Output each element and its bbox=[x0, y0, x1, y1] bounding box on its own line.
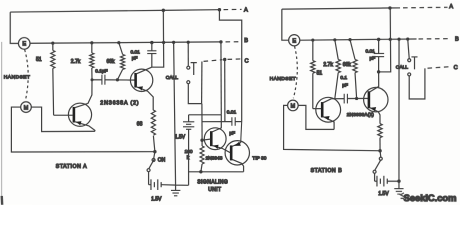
wire A-line rail (station B) bbox=[282, 8, 390, 9]
wire C riser to 0.01uF cap (signaling) bbox=[224, 59, 226, 121]
capacitor C5 0.01uF (station B) bbox=[378, 39, 380, 71]
handset dashed arc (station A) bbox=[25, 49, 29, 99]
wire signaling battery plus to collector riser bbox=[189, 114, 222, 116]
wire M1 right lead to Q1 emitter loop bbox=[31, 107, 95, 131]
resistor R1 51 (station A) bbox=[51, 50, 55, 68]
node 68k / base wire (station B) bbox=[355, 97, 358, 100]
wire M2 right lead to Q3 emitter loop bbox=[298, 105, 334, 129]
svg-text:68k: 68k bbox=[343, 62, 352, 68]
node B rail / CALL feed (B) bbox=[406, 37, 409, 40]
svg-text:E: E bbox=[22, 42, 26, 48]
svg-text:B: B bbox=[244, 38, 248, 44]
svg-text:µF: µF bbox=[132, 56, 138, 62]
resistor R9 68 (station B) bbox=[378, 124, 382, 138]
transistor Q2 2N3638A (station A upper) bbox=[105, 67, 153, 110]
svg-text:0.01: 0.01 bbox=[131, 49, 141, 55]
svg-text:0.01: 0.01 bbox=[366, 49, 376, 55]
svg-text:M: M bbox=[24, 105, 29, 111]
node battery / ground junction (station B) bbox=[397, 179, 400, 182]
wire Q2 collector to A rail riser bbox=[152, 10, 164, 67]
node 2.7k / Q1 collector junction bbox=[91, 78, 94, 81]
transistor Q6 TIP30 (signaling) bbox=[225, 122, 249, 172]
svg-text:A: A bbox=[449, 4, 453, 10]
microphone M1 (station A) bbox=[21, 102, 32, 113]
svg-text:A: A bbox=[244, 8, 248, 14]
battery B2 1.5V signaling (vertical) bbox=[183, 115, 194, 186]
wire B rail to battery riser (station B) bbox=[398, 39, 400, 181]
node B rail / 0.01uF bbox=[150, 41, 153, 44]
wire A-line rail (station A) bbox=[10, 10, 219, 13]
node B rail / 68k (B) bbox=[348, 38, 351, 41]
node B rail / 0.01uF (B) bbox=[377, 38, 380, 41]
node B rail / CALL feed bbox=[187, 41, 190, 44]
wire CALL return to C line (station A) bbox=[188, 84, 201, 104]
resistor R3 68k (station A) bbox=[121, 54, 125, 69]
svg-text:1.5V: 1.5V bbox=[175, 135, 186, 141]
terminal B dashed lead bbox=[226, 41, 241, 43]
wire B-line rail (station A) bbox=[30, 42, 221, 44]
terminal A dashed lead bbox=[224, 8, 242, 10]
wire M2 left lead to bottom rail (station B) bbox=[284, 105, 381, 150]
resistor R2 2.7k (station A) bbox=[90, 53, 94, 68]
node on A rail at collector riser bbox=[162, 9, 165, 12]
node B rail / battery riser bbox=[172, 41, 175, 44]
wire CALL return to C line (station B) bbox=[409, 68, 425, 99]
svg-text:68k: 68k bbox=[107, 59, 116, 65]
svg-text:µF: µF bbox=[370, 55, 376, 61]
capacitor C4 0.1uF (station B) bbox=[331, 97, 368, 99]
node bottom rail / 68 / ON (station B) bbox=[378, 149, 381, 152]
node B rail / 2.7k (B) bbox=[333, 38, 336, 41]
svg-text:0.1µF: 0.1µF bbox=[95, 68, 107, 74]
svg-text:2N3643: 2N3643 bbox=[206, 155, 223, 161]
resistor R7 2.7k (station B) bbox=[336, 59, 340, 72]
wire C riser down to 2N3643 base node bbox=[201, 104, 203, 141]
capacitor C3 0.01uF (signaling) bbox=[232, 117, 235, 126]
node B rail / battery riser (B) bbox=[397, 38, 400, 41]
svg-text:68: 68 bbox=[137, 121, 143, 127]
node B rail / signaling riser bbox=[219, 40, 222, 43]
wire B rail to ground riser (station A) bbox=[174, 42, 189, 185]
svg-text:HANDSET: HANDSET bbox=[270, 76, 297, 82]
svg-text:0.01: 0.01 bbox=[227, 109, 237, 115]
svg-text:2N3638A(2): 2N3638A(2) bbox=[347, 112, 375, 117]
capacitor C1 0.1uF (station A) bbox=[92, 79, 135, 81]
wire Q4 collector junction to A rail (station B) bbox=[379, 8, 391, 72]
wire A-line step down to signaling unit bbox=[219, 10, 241, 122]
ground (station A) bbox=[171, 185, 180, 196]
node C line / cap riser bbox=[223, 58, 226, 61]
capacitor C2 0.01uF (station A) bbox=[151, 43, 153, 68]
switch S3 ON (station B) bbox=[373, 151, 382, 181]
resistor R4 68 (station A) bbox=[151, 110, 155, 135]
wire E1 left lead up to A rail bbox=[10, 12, 18, 43]
transistor Q1 2N3638A (station A lower) bbox=[54, 80, 95, 132]
svg-text:2.7k: 2.7k bbox=[71, 59, 81, 65]
svg-text:M: M bbox=[291, 104, 296, 110]
terminal C dashed lead (station B) bbox=[428, 67, 450, 69]
earpiece E2 (station B) bbox=[289, 35, 300, 46]
node B rail / 51 (B) bbox=[311, 38, 314, 41]
transistor Q4 2N3638A (station B upper) bbox=[347, 72, 388, 124]
scan border left edge bbox=[1, 42, 3, 196]
svg-text:1.5V: 1.5V bbox=[378, 191, 389, 197]
wire 0.01uF left lead to base riser (signaling) bbox=[202, 121, 232, 123]
resistor R5 100k (signaling) bbox=[200, 146, 204, 164]
resistor R8 68k (station B) bbox=[353, 59, 357, 72]
svg-text:CALL: CALL bbox=[166, 75, 179, 81]
svg-text:C: C bbox=[245, 58, 249, 64]
switch S2 CALL (station A) bbox=[187, 42, 197, 83]
node B rail / collector riser crossing bbox=[162, 41, 165, 44]
svg-text:0.1: 0.1 bbox=[340, 75, 347, 81]
svg-text:µF: µF bbox=[342, 83, 348, 89]
svg-text:51: 51 bbox=[36, 57, 42, 63]
transistor Q3 2N3638A (station B lower) bbox=[313, 97, 341, 129]
terminal C dashed line (station A) bbox=[204, 60, 223, 62]
svg-text:ON: ON bbox=[158, 158, 166, 164]
node Q4 collector junction bbox=[377, 70, 380, 73]
svg-text:STATION A: STATION A bbox=[56, 164, 87, 170]
terminal A dashed lead (station B) bbox=[390, 7, 400, 9]
svg-text:C: C bbox=[454, 65, 458, 71]
wire C riser from CALL bar to C line bbox=[201, 61, 203, 103]
wire B-line rail (station B) bbox=[300, 39, 417, 40]
node terminal A takeoff bbox=[218, 8, 221, 11]
earpiece E1 (station A) bbox=[18, 38, 30, 50]
svg-text:51: 51 bbox=[317, 71, 323, 77]
svg-text:TIP 30: TIP 30 bbox=[252, 155, 266, 161]
resistor R6 51 (station B) bbox=[311, 61, 315, 74]
svg-text:SeekIC.com: SeekIC.com bbox=[404, 193, 457, 204]
svg-text:2N3638A (2): 2N3638A (2) bbox=[100, 100, 139, 106]
svg-text:HANDSET: HANDSET bbox=[4, 74, 31, 80]
svg-text:CALL: CALL bbox=[396, 64, 409, 70]
wire E2 left lead up to A rail bbox=[282, 9, 289, 40]
ground (station B) bbox=[394, 181, 403, 194]
svg-text:100: 100 bbox=[185, 149, 193, 155]
terminal B dashed lead (station B) bbox=[419, 38, 449, 40]
switch S4 CALL (station B) bbox=[408, 39, 418, 76]
svg-text:E: E bbox=[292, 38, 296, 44]
svg-text:µF: µF bbox=[229, 130, 235, 136]
wire B riser to 2N3643 collector bbox=[220, 42, 222, 115]
node B rail / 51 bbox=[51, 42, 54, 45]
battery B1 1.5V (station A) bbox=[149, 179, 176, 190]
svg-text:B: B bbox=[455, 37, 459, 43]
node 100k / bottom rail bbox=[199, 170, 202, 173]
node 2N3643 base junction bbox=[200, 138, 203, 141]
node B rail / riser crossing (B) bbox=[389, 38, 392, 41]
microphone M2 (station B) bbox=[288, 100, 299, 111]
switch S1 ON (station A) bbox=[147, 152, 155, 185]
node 0.1uF / 68k junction bbox=[116, 78, 119, 81]
wire signaling bottom rail bbox=[189, 171, 244, 173]
svg-text:UNIT: UNIT bbox=[208, 187, 221, 193]
svg-text:2.7k: 2.7k bbox=[323, 62, 333, 68]
node B rail / 2.7k bbox=[90, 41, 93, 44]
node B rail / 68k bbox=[117, 41, 120, 44]
battery B3 1.5V (station B) bbox=[375, 176, 399, 187]
handset dashed arc (station B) bbox=[293, 46, 297, 98]
svg-text:SIGNALING: SIGNALING bbox=[197, 180, 228, 186]
node bottom rail / 68 / ON switch bbox=[153, 150, 156, 153]
wire M1 left lead to bottom rail bbox=[11, 107, 155, 152]
watermark mark bbox=[401, 193, 405, 199]
svg-text:STATION B: STATION B bbox=[311, 168, 343, 174]
node A rail / collector riser (station B) bbox=[388, 6, 391, 9]
svg-text:1.5V: 1.5V bbox=[151, 197, 162, 203]
transistor Q5 2N3643 (signaling) bbox=[202, 115, 231, 153]
